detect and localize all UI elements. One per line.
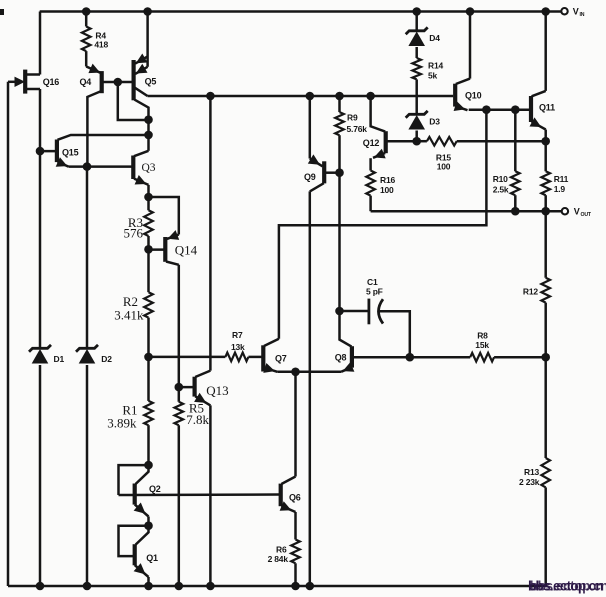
junction R7 node [144,353,153,362]
wire rail to R4 [85,12,88,27]
svg-text:Q12: Q12 [363,138,380,148]
wire R16 to Vout line [369,196,372,212]
wire D2 to ground [86,365,89,586]
wire D1 to ground [39,365,42,586]
wire Q2 base line to Q6 [119,493,281,496]
wire R9 line down to C1 node [338,173,341,311]
transistor Q11 [530,91,546,130]
wire R7 node to zigzag [149,356,226,359]
junction rail-Q5 [143,7,152,16]
transistor Q3 [133,151,148,185]
transistor Q1 [134,526,149,577]
svg-text:R11: R11 [554,174,569,184]
wire Q7 collector feedback [279,110,487,339]
wire Q4 collector through D2 [86,167,89,348]
wire node to R2 [147,249,150,292]
wire x148 to Q3 [147,135,150,151]
resistor R5 [175,402,184,425]
resistor R9 [335,112,344,135]
wire R13 to ground [544,487,547,586]
wire Q2 emitter down [147,517,150,526]
resistor R4 [82,27,91,52]
wire Q16 gate lead [8,81,18,84]
wire x148 seg [147,120,150,135]
transistor Q10 [454,79,470,111]
junction feedback node [482,105,491,114]
junction Q11 emitter node [541,137,550,146]
svg-text:576: 576 [124,226,144,241]
wire R2 to R7 node [147,318,150,357]
junction gnd-Q9 [306,582,315,591]
wire R3 to Q14 base node [147,236,150,249]
terminal V_OUT [562,208,568,214]
wire Q13 collector up to bias [209,96,212,371]
transistor Q4 [86,64,118,167]
svg-text:2 84k: 2 84k [268,554,289,564]
wire Q12 emitter to R16 [369,158,372,170]
svg-text:418: 418 [94,40,108,50]
wire R6 to ground [294,563,297,586]
resistor R13 [541,458,550,487]
svg-text:R12: R12 [523,287,538,297]
junction Q4 collector-Q15 emitter [83,162,92,171]
wire R15 to Q11 emitter node [457,140,546,143]
wire Q14 emitter loop [149,197,179,235]
transistor Q13 [194,371,210,406]
svg-text:IN: IN [580,12,585,18]
wire Q10 collector to rail [469,12,472,79]
wire x40 down to D1 [39,151,42,348]
svg-text:Q16: Q16 [43,77,60,87]
svg-text:R14: R14 [428,61,443,71]
junction rail-Q10 [466,7,475,16]
junction gnd-Q13 [206,582,215,591]
resistor R7 [225,353,248,362]
junction gnd-Q1 [144,582,153,591]
transistor Q5 [134,54,149,120]
wire node to R3 [147,197,150,210]
wire Q9 collector to ground [309,191,312,586]
svg-text:Q14: Q14 [175,243,198,258]
junction rail-Q11 [541,7,550,16]
wire V_OUT line [371,210,562,213]
wire diffpair emitter rail [277,371,341,374]
svg-text:2.5k: 2.5k [493,185,509,195]
transistor Q7 [263,339,279,373]
wire Q12 collector [371,96,386,132]
junction bias-Q12 [366,92,375,101]
junction gnd-D2 [83,582,92,591]
svg-text:D4: D4 [429,33,440,43]
resistor R2 [144,292,153,317]
wire Q6 collector up [294,372,297,477]
svg-text:Q7: Q7 [275,354,287,364]
wire D4 to R14 [415,47,418,58]
junction gnd-D1 [36,582,45,591]
resistor R15 [427,137,457,146]
junction Q9 base node [335,168,344,177]
transistor Q9 [308,154,340,191]
wire R14 to D3 [415,79,418,113]
svg-text:R6: R6 [276,545,287,555]
wire R9 to Q9 base node [338,135,341,173]
junction Q14 base node [144,245,153,254]
capacitor C1 [369,299,383,325]
svg-text:5k: 5k [428,71,438,81]
wire rail to Q5 emitters [146,12,149,67]
svg-text:Q11: Q11 [539,103,555,113]
transistor Q12 [373,131,417,158]
transistor Q6 [280,477,296,513]
svg-text:R7: R7 [232,330,243,340]
svg-text:Q9: Q9 [304,172,316,182]
svg-text:5 pF: 5 pF [366,287,383,297]
junction bias-R9 [335,92,344,101]
junction Q6 collector node [291,368,300,377]
svg-text:15k: 15k [475,340,489,350]
wire Q1 emitter to ground [147,577,150,586]
transistor Q2 [134,465,149,516]
wire C1 right lead [380,311,410,357]
resistor R12 [541,278,550,303]
svg-text:5.76k: 5.76k [347,124,368,134]
wire Q8 base lead [340,311,352,347]
wire D3 to R15 node [415,131,418,142]
junction Q13 base node [175,383,184,392]
svg-text:V: V [574,206,580,216]
wire Q11 emitter down [544,130,547,142]
wire R11 to Vout [544,195,547,211]
svg-text:R16: R16 [380,175,395,185]
wire base jog to Q5 collector [118,82,149,120]
svg-text:100: 100 [437,162,451,172]
zener D4 [406,27,428,34]
wire Q3 emitter down [147,185,150,197]
svg-text:bbs.ectop.cn: bbs.ectop.cn [530,579,606,594]
wire Q13 base lead [179,386,195,389]
wire R7 to Q7 base [248,356,263,359]
svg-text:3.89k: 3.89k [107,416,137,431]
svg-text:Q2: Q2 [149,484,161,494]
svg-text:Q13: Q13 [206,383,228,398]
transistor Q16 [15,70,41,94]
wire bias line y96 [148,95,454,98]
wire Q2 base jumper [119,465,149,495]
resistor R14 [412,58,421,79]
wire Q10 emitter line [469,108,531,111]
scan mark [0,9,4,15]
zener D1 [29,345,51,352]
svg-text:1.9: 1.9 [554,184,566,194]
svg-text:100: 100 [380,185,394,195]
junction R3 top node [144,193,153,202]
svg-text:2 23k: 2 23k [519,477,540,487]
wire node to R10 [514,110,517,172]
junction C1 node [335,307,344,316]
svg-text:R10: R10 [493,174,508,184]
wire Q9 emitter from bias [309,96,312,159]
resistor R6 [291,540,300,564]
resistor R1 [144,401,153,425]
svg-text:OUT: OUT [581,212,592,218]
junction Q15 base node [36,147,45,156]
svg-text:Q8: Q8 [335,353,347,363]
junction bias-Q9 [306,92,315,101]
junction Vout-R10 [511,207,520,216]
wire node to R15 [417,140,427,143]
wire C1 left lead [340,310,369,313]
transistor Q8 [341,346,470,372]
wire V_IN top rail [40,10,561,12]
junction gnd-R6 [291,582,300,591]
svg-text:7.8k: 7.8k [186,412,209,427]
wire Q15 emitter / Q3 base [69,165,134,168]
wire Q14 collector down [178,265,181,387]
resistor R10 [511,171,520,195]
wire Q1 base jumper [119,526,149,556]
svg-text:D2: D2 [101,354,112,364]
wire node to R13 [544,357,547,458]
junction R8 right node [541,353,550,362]
resistor R8 [470,353,494,362]
transistor Q14 [149,230,180,265]
wire Q6 emitter to R6 [294,512,297,540]
junction Q1 collector node [144,521,153,530]
junction Q15 collector node [144,131,153,140]
zener D2 [76,345,98,352]
transistor Q15 [40,135,149,167]
wire R12 to R8 node [544,303,547,358]
terminal V_IN [561,8,567,14]
svg-text:R9: R9 [347,113,358,123]
junction R10 top node [511,105,520,114]
wire left gate rail [7,82,10,586]
junction rail-D4 [412,7,421,16]
wire node to R11 [544,141,547,171]
svg-text:3.41k: 3.41k [114,308,144,323]
svg-text:Q6: Q6 [289,493,301,503]
wire Q16 source down [39,89,42,151]
junction Q4-Q5 base node [114,78,123,87]
wire ground bottom rail [8,585,546,588]
svg-text:C1: C1 [367,277,378,287]
resistor R16 [366,171,375,196]
wire R1 to Q2 [147,425,150,465]
svg-text:Q4: Q4 [80,77,92,87]
wire rail to D4 [415,12,418,31]
junction Vout-R11 [541,207,550,216]
wire bias to R9 [338,96,341,112]
wire Q11 collector to rail [544,12,547,91]
junction Q5 collector2 node [144,115,153,124]
svg-text:R8: R8 [477,331,488,341]
junction C1-collector node [406,353,415,362]
wire R4 to Q4 emitter [85,51,88,66]
resistor R11 [541,171,550,195]
wire R10 to Vout [514,195,517,211]
svg-text:V: V [573,7,579,17]
svg-text:Q15: Q15 [62,148,79,158]
svg-text:D3: D3 [429,117,440,127]
svg-text:Q3: Q3 [142,162,156,174]
junction Q2 collector node [144,461,153,470]
wire base node to Q5 [118,81,134,84]
resistor R3 [144,210,153,236]
wire Vout to R12 [544,211,547,278]
wire R8 to R12 node [494,356,546,359]
zener D3 [406,111,428,118]
wire Q16 drain to rail [39,12,42,75]
junction rail-R4 [82,7,91,16]
svg-text:Q5: Q5 [145,77,157,87]
wire node to R5 [178,387,181,402]
wire R5 to ground [178,425,181,586]
svg-text:D1: D1 [54,354,65,364]
svg-text:13k: 13k [231,342,245,352]
svg-text:Q1: Q1 [146,553,158,563]
junction gnd-R5 [175,582,184,591]
svg-text:R13: R13 [524,467,539,477]
svg-text:Q10: Q10 [465,91,482,101]
wire Q13 emitter to ground [209,405,212,586]
junction D3-R15-Q12 node [412,137,421,146]
junction bias-Q13 [206,92,215,101]
wire node to R1 [147,357,150,401]
